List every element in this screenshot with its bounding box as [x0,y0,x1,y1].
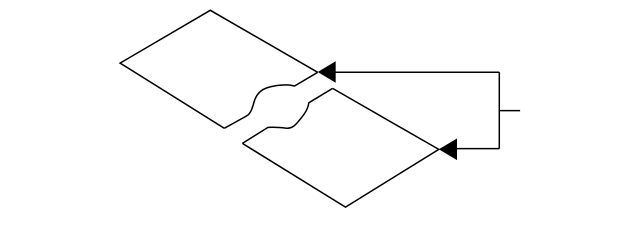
wire from bracket to arrowhead B [457,148,500,150]
arrowhead at sheet A [318,61,336,82]
tear edge of sheet A [224,72,317,128]
wire vertical bracket [498,72,500,148]
arrowhead at sheet B [439,139,457,161]
wire from arrowhead A to bracket [335,71,499,73]
tear edge of sheet B [242,88,332,143]
wire stub at bracket midpoint [499,110,520,112]
plane sheet B (lower torn parallelogram) [242,88,438,207]
plane sheet A (upper torn parallelogram) [120,10,318,128]
